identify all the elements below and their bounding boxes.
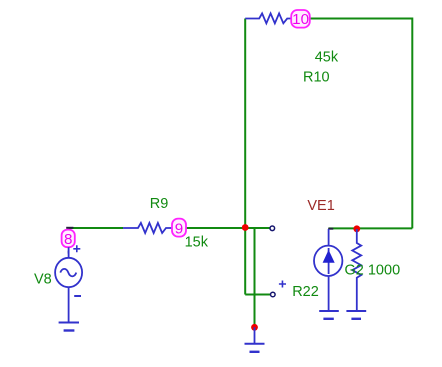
ref label R9 [150,196,169,212]
svg-text:R9: R9 [150,196,169,212]
value label 15k [185,235,209,251]
wire left vertical (top corner down to lower horizontal) [244,19,246,295]
ref label V8 [34,272,52,288]
plus sign of V8 [73,245,80,252]
wire middle vertical (to bottom ground) [254,228,256,328]
ground (under V8) [59,323,79,331]
pin stub at current source top (black) [328,228,333,230]
svg-text:V8: V8 [34,272,52,288]
ground (under current source) [319,311,339,319]
terminal pin lower (R22 +) [271,292,276,297]
value label 45k [315,49,339,65]
svg-text:R22: R22 [292,284,319,300]
pin stub on V8 top lead [68,251,70,254]
ref label R10 [303,70,330,86]
resistor R9 [123,223,172,233]
svg-text:45k: 45k [315,49,339,65]
junction dot (VE1 net) [353,225,360,232]
wire bottom horizontal (to lower terminal) [245,294,270,296]
svg-text:9: 9 [175,221,183,238]
node 9 label [172,219,186,238]
current source R22 (controlled source) [314,229,342,311]
svg-text:VE1: VE1 [307,198,334,214]
ground (under resistor G2) [346,311,366,319]
svg-text:8: 8 [64,231,72,248]
wire from node 8 to R9 [69,227,123,229]
plus sign of R22 input [279,281,286,288]
junction dot (bottom ground) [251,324,258,331]
wire right horizontal (to current source top) [329,227,413,229]
node 10 label [291,10,310,28]
svg-text:15k: 15k [185,235,209,251]
resistor G2 (vertical, 1000) [352,229,361,311]
svg-text:G2 1000: G2 1000 [345,262,401,278]
pin stub at node 8 (black) [66,227,73,229]
wire top horizontal (node 10 to top-right corner) [310,18,413,20]
minus sign of V8 [74,295,81,297]
voltage source V8 [55,247,82,322]
svg-text:R10: R10 [303,70,330,86]
junction dot (node 9 net) [242,224,249,231]
label VE1 [307,198,334,214]
value label G2 1000 [345,262,401,278]
ref label R22 [292,284,319,300]
node 8 label [62,230,75,248]
resistor R10 [245,13,291,23]
terminal pin upper (R22 -) [270,226,275,231]
wire right vertical [411,18,413,229]
wire from node 9 to terminal [186,227,270,229]
ground (bottom center) [245,327,265,352]
svg-text:10: 10 [292,11,309,28]
